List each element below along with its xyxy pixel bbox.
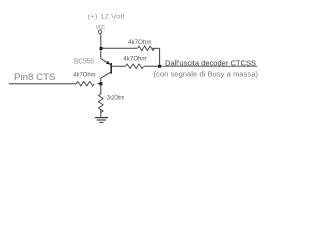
svg-text:BC556: BC556 — [74, 57, 94, 66]
svg-text:4k7Ohm: 4k7Ohm — [128, 39, 152, 46]
emitter diagonal — [101, 59, 111, 65]
wire resistor to output node — [144, 65, 160, 67]
node collector junction — [99, 82, 102, 85]
svg-text:(con segnale di Busy a massa): (con segnale di Busy a massa) — [154, 71, 259, 78]
wire down to 2k2 resistor — [100, 84, 102, 94]
collector diagonal — [101, 72, 111, 78]
wire resistor to ground — [100, 110, 102, 118]
wire top branch horizontal — [101, 47, 138, 49]
wire resistor to collector node — [97, 83, 101, 85]
node output junction — [158, 65, 161, 68]
wire right vertical down — [159, 48, 161, 66]
resistor R2 4k7Ohm base series zigzag — [126, 64, 144, 68]
transistor Q1 BC556 PNP — [101, 59, 111, 79]
wire collector down — [100, 78, 102, 84]
svg-text:Pin8 CTS: Pin8 CTS — [14, 72, 56, 82]
base bar — [110, 63, 112, 74]
resistor R3 4k7Ohm input zigzag — [76, 82, 94, 86]
svg-text:Dall'uscita decoder CTCSS: Dall'uscita decoder CTCSS — [165, 58, 256, 67]
svg-text:4k7Ohm: 4k7Ohm — [123, 56, 146, 63]
resistor R1 4k7Ohm pullup zigzag — [138, 46, 155, 50]
svg-text:2k2Ohm: 2k2Ohm — [107, 95, 124, 102]
wire output stub under label — [160, 65, 257, 67]
wire base to series resistor — [111, 65, 125, 67]
ground symbol — [95, 118, 108, 123]
node junction base-pullup tee — [100, 47, 103, 50]
wire top branch to corner — [152, 47, 159, 49]
emitter arrow (PNP points to base) — [106, 61, 110, 65]
svg-text:(+) 12 Volt: (+) 12 Volt — [88, 14, 125, 21]
wire input from Pin8 CTS — [9, 83, 76, 85]
wire VCC down to emitter — [100, 33, 102, 58]
VCC power terminal circle — [98, 30, 101, 33]
svg-text:4k7Ohm: 4k7Ohm — [73, 72, 96, 79]
resistor R4 2k2Ohm vertical zigzag — [99, 94, 104, 113]
